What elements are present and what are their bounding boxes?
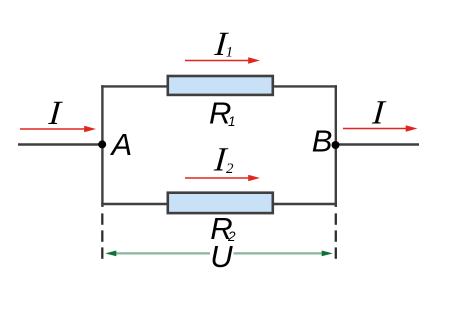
svg-text:I: I xyxy=(370,95,387,132)
current label I (left) xyxy=(47,95,64,132)
dashed extension line below node B xyxy=(335,213,337,258)
svg-text:U: U xyxy=(210,239,233,274)
wire right lead out of node B xyxy=(336,143,420,145)
resistor R1 xyxy=(168,76,273,95)
current label I1 xyxy=(213,26,233,63)
current label I (right) xyxy=(370,95,387,132)
wire left vertical branch xyxy=(101,85,103,207)
wire right vertical branch xyxy=(335,85,337,207)
current arrow I (left) xyxy=(20,126,96,132)
svg-text:I: I xyxy=(47,95,64,132)
wire top branch xyxy=(101,85,337,87)
dashed extension line below node A xyxy=(101,213,103,258)
node B xyxy=(332,141,340,149)
resistor label R2 xyxy=(210,211,236,246)
current arrow I2 xyxy=(185,175,260,181)
svg-text:A: A xyxy=(110,127,133,162)
current arrow I (right) xyxy=(343,125,418,131)
svg-text:1: 1 xyxy=(226,45,234,61)
svg-text:1: 1 xyxy=(228,114,236,129)
wire left lead into node A xyxy=(18,143,102,145)
resistor label R1 xyxy=(209,96,236,131)
current arrow I1 xyxy=(185,57,260,63)
wire bottom branch xyxy=(101,203,337,205)
svg-text:2: 2 xyxy=(226,161,234,177)
voltage dimension arrow U xyxy=(105,251,333,257)
resistor R2 xyxy=(168,193,273,213)
current label I2 xyxy=(212,141,234,178)
node A xyxy=(98,140,106,148)
svg-text:B: B xyxy=(312,123,333,158)
